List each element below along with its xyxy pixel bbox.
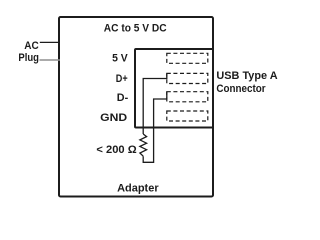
svg-text:USB Type A: USB Type A — [216, 70, 277, 82]
svg-text:Plug: Plug — [18, 52, 39, 64]
pin 2 (D+) dashed outline — [167, 73, 208, 83]
svg-text:D+: D+ — [116, 73, 128, 85]
resistor R (zigzag, &lt; 200 ohm) — [140, 134, 147, 156]
svg-text:GND: GND — [100, 112, 127, 124]
AC plug neutral lead wire — [40, 59, 61, 61]
wire D+ from pin 2 to resistor top — [143, 73, 167, 134]
pin 1 (5 V) dashed outline — [167, 53, 208, 63]
svg-text:Adapter: Adapter — [117, 182, 159, 194]
svg-text:< 200 Ω: < 200 Ω — [96, 144, 136, 156]
svg-text:Connector: Connector — [216, 83, 266, 95]
wire D- from pin 3 to resistor bottom — [143, 92, 167, 163]
svg-text:AC: AC — [24, 40, 39, 52]
svg-text:D-: D- — [117, 92, 129, 104]
pin 3 (D-) dashed outline — [167, 92, 208, 102]
svg-text:5 V: 5 V — [112, 53, 128, 65]
AC plug hot lead wire — [40, 41, 60, 43]
adapter outer box — [59, 17, 213, 197]
svg-text:AC to 5 V DC: AC to 5 V DC — [104, 23, 167, 35]
pin 4 (GND) dashed outline — [167, 111, 208, 121]
USB connector inner box — [135, 49, 213, 128]
